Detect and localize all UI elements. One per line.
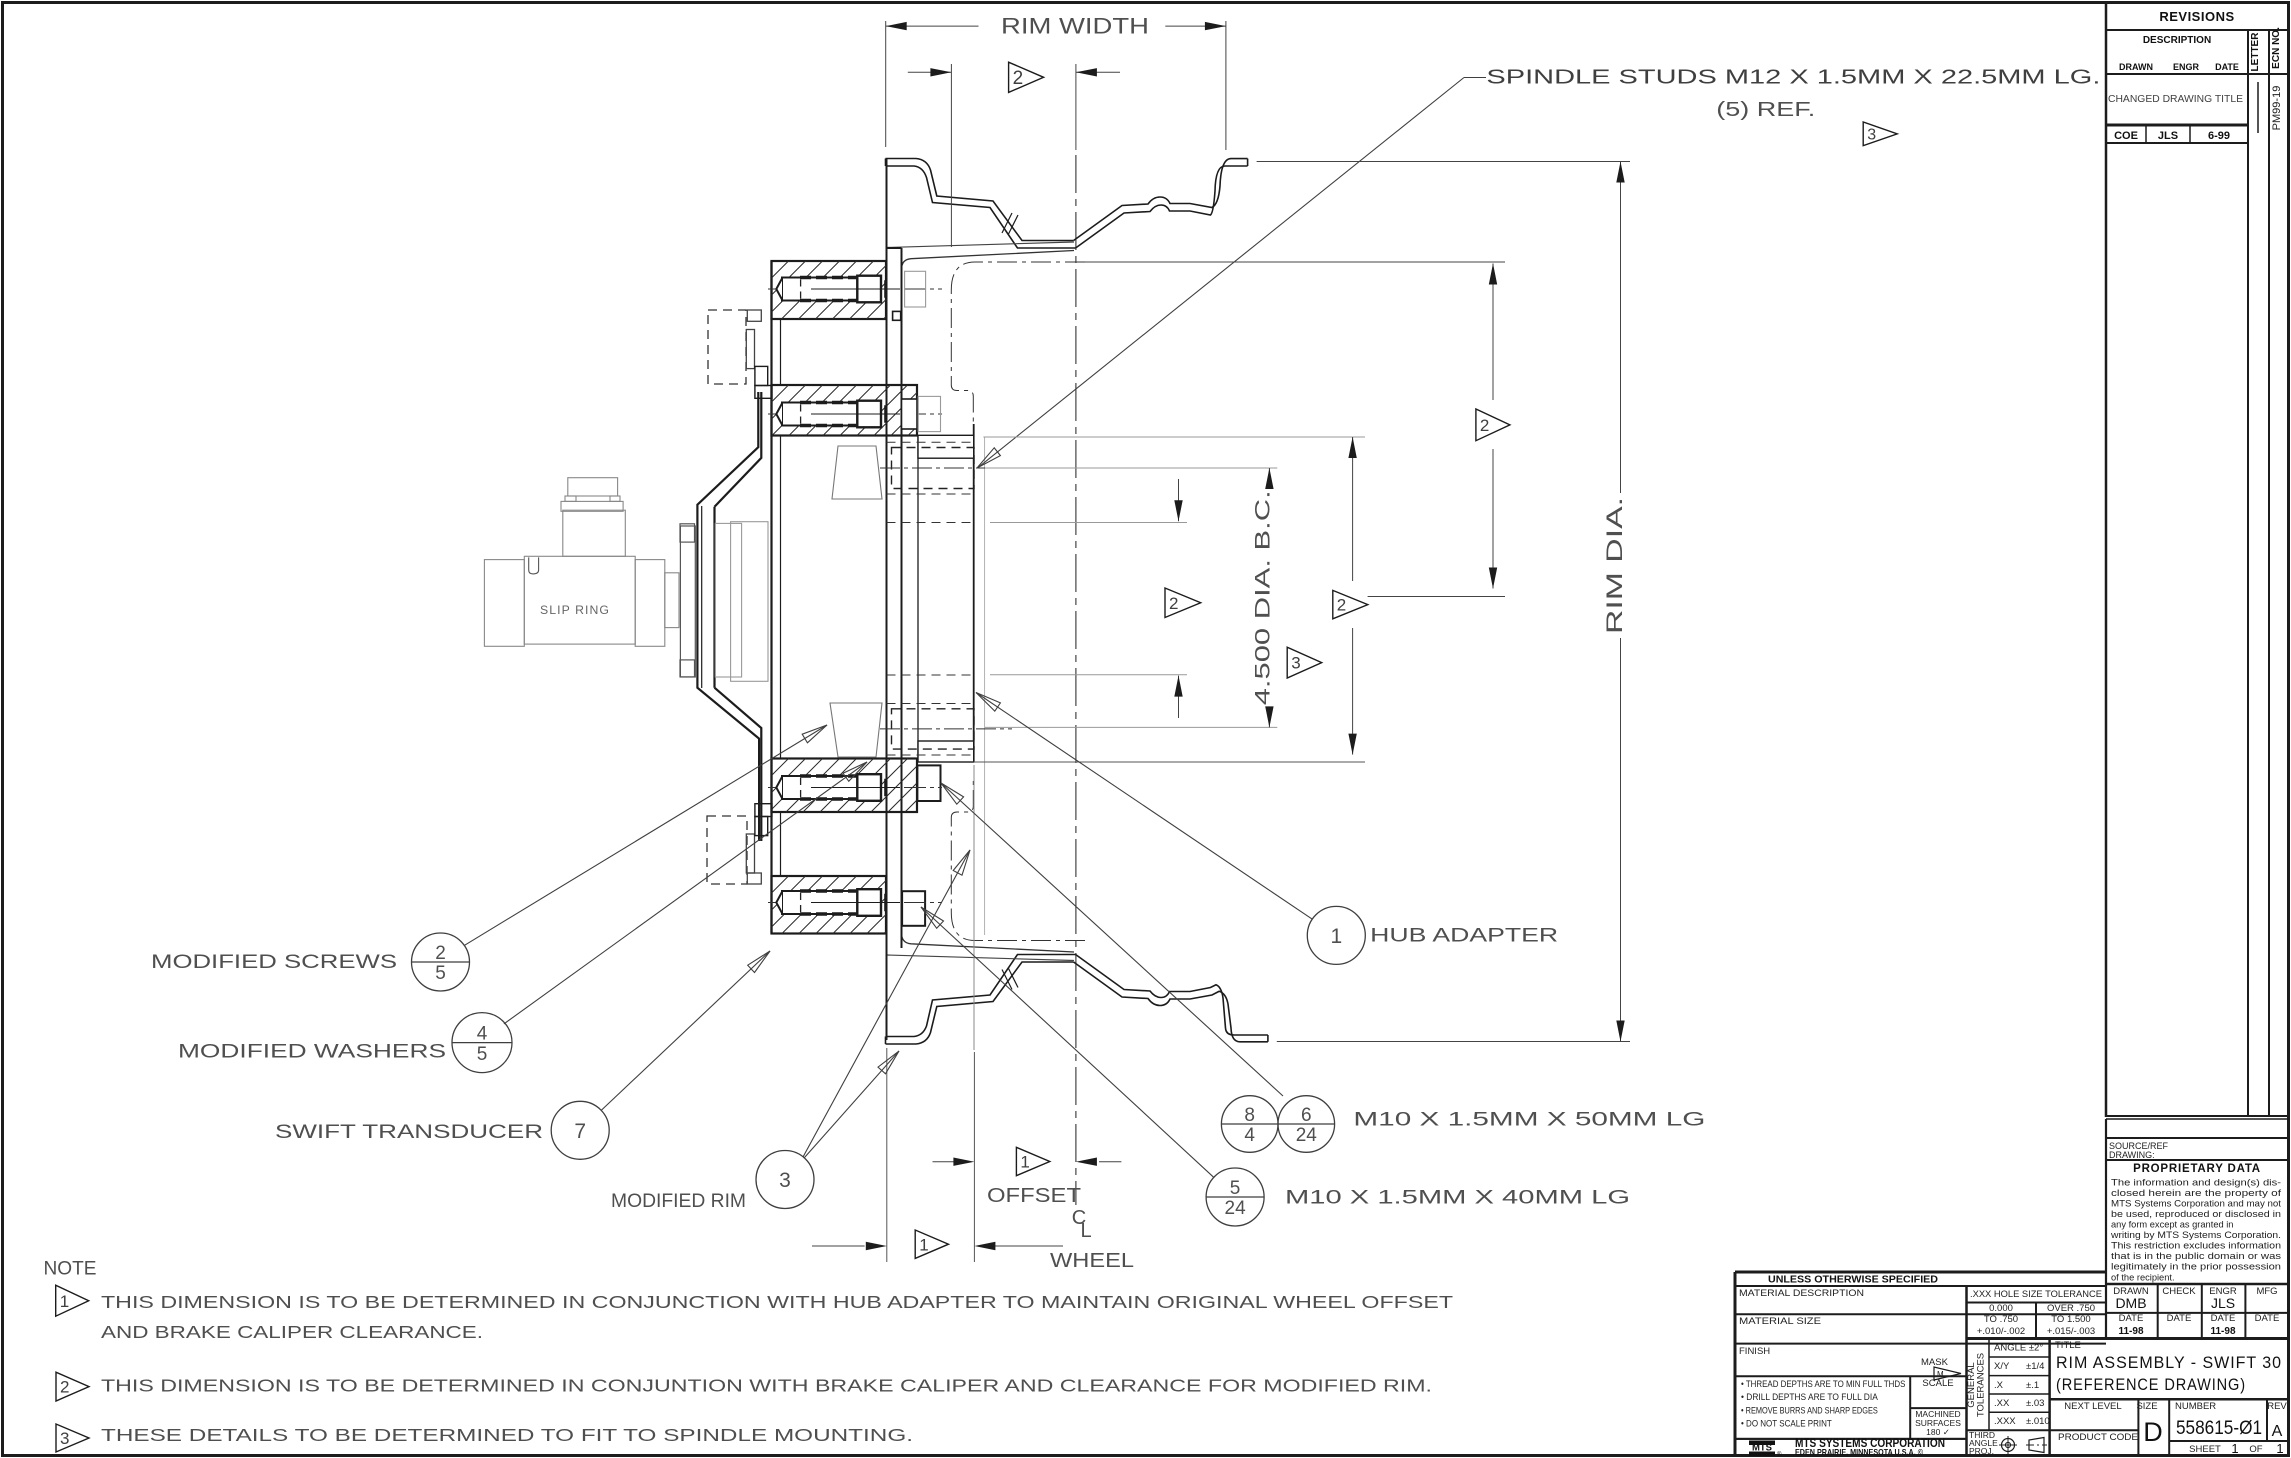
balloon 8/4 — [1221, 1096, 1278, 1153]
svg-text:THIS DIMENSION IS TO BE DETERM: THIS DIMENSION IS TO BE DETERMINED IN CO… — [101, 1376, 1432, 1396]
svg-text:2: 2 — [1337, 596, 1346, 615]
flag 1 (offset) — [1016, 1147, 1049, 1175]
svg-text:MODIFIED RIM: MODIFIED RIM — [611, 1191, 746, 1212]
wheel mounting face line — [973, 424, 975, 762]
svg-text:MTS Systems Corporation and ma: MTS Systems Corporation and may not — [2111, 1198, 2281, 1208]
svg-text:±.1: ±.1 — [2026, 1380, 2039, 1391]
hub ring inner faces dimension (x=1352.6) — [983, 436, 1365, 438]
svg-text:NOTE: NOTE — [44, 1259, 97, 1280]
wheel centerline CL — [1075, 64, 1077, 150]
svg-text:24: 24 — [1225, 1198, 1247, 1219]
svg-text:NUMBER: NUMBER — [2175, 1401, 2216, 1412]
flag 3 (spindle studs) — [1863, 122, 1897, 146]
svg-text:11-98: 11-98 — [2118, 1326, 2143, 1337]
rim disc clamp plate edge — [917, 436, 919, 759]
modified screw, second bolt — [768, 413, 942, 415]
svg-text:OVER .750: OVER .750 — [2047, 1303, 2095, 1314]
svg-text:WHEEL: WHEEL — [1050, 1250, 1134, 1272]
svg-text:DRAWN: DRAWN — [2119, 62, 2153, 72]
svg-text:MATERIAL SIZE: MATERIAL SIZE — [1739, 1316, 1821, 1327]
svg-text:4: 4 — [1244, 1125, 1255, 1146]
svg-text:2: 2 — [435, 943, 446, 964]
RIM WIDTH dimension — [885, 21, 887, 147]
balloon 5/24 — [1206, 1168, 1264, 1226]
hub face to wheel face dimension (bottom) — [886, 1048, 888, 1262]
svg-text:M10 X 1.5MM X 40MM LG: M10 X 1.5MM X 40MM LG — [1285, 1188, 1630, 1209]
stud hole dimension (small arrows x=1178.5) — [990, 522, 1187, 524]
svg-text:(REFERENCE DRAWING): (REFERENCE DRAWING) — [2056, 1376, 2246, 1394]
hatched block B3 (lower ring) — [772, 759, 918, 813]
svg-text:COE: COE — [2114, 130, 2138, 142]
spindle stud, lower (hidden) — [892, 709, 975, 749]
MTS logo — [1735, 1438, 1967, 1440]
bolt pocket in plate (second bolt) — [902, 399, 918, 429]
svg-text:closed herein are the property: closed herein are the property of — [2111, 1188, 2282, 1198]
lug nut (lower, behind section) — [830, 703, 882, 757]
svg-text:PROJ.: PROJ. — [1969, 1446, 1994, 1456]
svg-text:PRODUCT CODE: PRODUCT CODE — [2058, 1432, 2138, 1443]
leader: modified screws — [464, 725, 827, 946]
svg-text:MODIFIED WASHERS: MODIFIED WASHERS — [178, 1042, 446, 1063]
balloon 7 swift transducer — [551, 1101, 609, 1159]
svg-text:• REMOVE BURRS AND SHARP EDGES: • REMOVE BURRS AND SHARP EDGES — [1741, 1405, 1878, 1415]
svg-text:SWIFT TRANSDUCER: SWIFT TRANSDUCER — [275, 1122, 543, 1143]
svg-text:.X: .X — [1994, 1380, 2004, 1391]
lug nut (upper, behind section) — [832, 446, 882, 499]
flag 1 (bottom dim) — [915, 1230, 948, 1258]
revisions table — [2105, 2, 2108, 1117]
svg-text:TO .750: TO .750 — [1984, 1314, 2018, 1325]
svg-text:MATERIAL DESCRIPTION: MATERIAL DESCRIPTION — [1739, 1288, 1864, 1299]
leader: hub adapter — [976, 693, 1312, 920]
modified rim, bottom section (outer wall) — [886, 962, 1074, 1044]
hub cover bracket (bottom, hidden) — [707, 816, 747, 884]
svg-text:DATE: DATE — [2215, 62, 2239, 72]
svg-text:AND BRAKE CALIPER CLEARANCE.: AND BRAKE CALIPER CLEARANCE. — [101, 1322, 483, 1342]
OFFSET dimension — [933, 1161, 954, 1163]
svg-text:TOLERANCES: TOLERANCES — [1976, 1353, 1987, 1417]
RIM DIA dimension — [1257, 161, 1630, 163]
svg-text:DATE: DATE — [2255, 1313, 2280, 1324]
svg-text:MASK: MASK — [1921, 1357, 1949, 1368]
hub adapter ring section, hatched block B1 — [772, 261, 887, 319]
source/ref drawing box — [2106, 1137, 2289, 1139]
svg-text:2: 2 — [1013, 68, 1024, 89]
rim section weld ticks (top) — [1002, 213, 1012, 233]
svg-text:RIM WIDTH: RIM WIDTH — [1001, 14, 1149, 39]
svg-text:HUB ADAPTER: HUB ADAPTER — [1370, 926, 1558, 947]
svg-text:ENGR: ENGR — [2173, 62, 2200, 72]
svg-text:PROPRIETARY DATA: PROPRIETARY DATA — [2133, 1163, 2261, 1175]
svg-text:11-98: 11-98 — [2210, 1326, 2235, 1337]
leader: modified rim — [804, 1051, 899, 1158]
svg-text:SIZE: SIZE — [2136, 1401, 2157, 1412]
svg-text:5: 5 — [477, 1044, 488, 1065]
svg-text:8: 8 — [1244, 1105, 1255, 1126]
svg-text:UNLESS OTHERWISE SPECIFIED: UNLESS OTHERWISE SPECIFIED — [1768, 1275, 1938, 1286]
svg-text:3: 3 — [1867, 127, 1876, 144]
svg-text:OF: OF — [2249, 1444, 2262, 1455]
swift transducer horn outline — [697, 392, 759, 841]
leader: M10 x 50 screws — [941, 783, 1283, 1096]
svg-text:JLS: JLS — [2158, 130, 2178, 142]
svg-text:SLIP RING: SLIP RING — [540, 605, 610, 617]
rim section weld ticks (bottom) — [1002, 970, 1012, 990]
hub adapter/rim junction hatched block B2 — [772, 385, 918, 436]
hub flange dimension (x=1493) — [1085, 261, 1505, 263]
svg-text:2: 2 — [1480, 416, 1489, 435]
third-angle projection symbol — [2002, 1439, 2015, 1452]
svg-text:DRAWING:: DRAWING: — [2109, 1150, 2155, 1160]
projection cone symbol — [2029, 1438, 2044, 1453]
flag 2 (mid dim) — [1333, 590, 1368, 618]
balloon 4/5 modified washers — [452, 1013, 512, 1073]
leader: M10 x 40 screws — [921, 907, 1214, 1177]
rim disc mid-plane centerline (dash-dot) — [951, 262, 1085, 424]
hidden hub pilot edge (faint) — [984, 437, 986, 935]
svg-text:X/Y: X/Y — [1994, 1361, 2010, 1372]
flag 2 (stud dim) — [1165, 588, 1201, 618]
rim disc lower face lines — [887, 955, 1074, 961]
svg-text:MFG: MFG — [2256, 1286, 2277, 1297]
hub cover bracket (top, hidden) — [708, 310, 746, 384]
svg-text:±.010: ±.010 — [2026, 1416, 2050, 1427]
spindle studs leader — [1464, 77, 1486, 79]
4.500 DIA. B.C. dimension — [985, 467, 1277, 469]
modified washer block (bottom bolt) — [902, 891, 925, 926]
svg-text:DATE: DATE — [2211, 1313, 2236, 1324]
svg-text:that is in the public domain o: that is in the public domain or was — [2111, 1251, 2281, 1261]
svg-text:1: 1 — [919, 1235, 928, 1254]
svg-text:1: 1 — [2276, 1441, 2283, 1456]
svg-text:SCALE: SCALE — [1922, 1378, 1953, 1389]
modified screw, bottom bolt — [768, 902, 942, 904]
svg-text:2: 2 — [1169, 594, 1178, 613]
spindle stud, upper (hidden) — [892, 448, 975, 489]
note flag 2 — [56, 1372, 89, 1401]
svg-text:LETTER: LETTER — [2250, 32, 2261, 72]
note flag 3 — [56, 1424, 89, 1452]
hub adapter mounting pad (bottom) — [918, 741, 974, 762]
svg-text:ECN NO.: ECN NO. — [2271, 27, 2282, 69]
svg-text:writing by MTS Systems Corpora: writing by MTS Systems Corporation. — [2110, 1230, 2281, 1240]
svg-text:3: 3 — [779, 1169, 791, 1192]
svg-text:• DRILL DEPTHS ARE TO FULL DIA: • DRILL DEPTHS ARE TO FULL DIA — [1741, 1392, 1879, 1402]
svg-text:The information and design(s): The information and design(s) dis- — [2111, 1177, 2281, 1187]
svg-text:5: 5 — [1230, 1178, 1241, 1199]
hatched block B4 (bottom ring) — [772, 876, 887, 934]
svg-text:SPINDLE STUDS M12 X 1.5MM X 22: SPINDLE STUDS M12 X 1.5MM X 22.5MM LG. — [1486, 67, 2100, 89]
modified rim, bottom section (inner wall) — [886, 955, 1076, 1037]
svg-text:.XXX: .XXX — [1994, 1416, 2016, 1427]
balloon 2/5 modified screws — [412, 933, 470, 991]
svg-text:558615-Ø1: 558615-Ø1 — [2176, 1418, 2262, 1439]
modified rim, top section (outer wall) — [886, 159, 1074, 241]
svg-text:REV: REV — [2267, 1401, 2287, 1412]
svg-text:RIM ASSEMBLY - SWIFT 30: RIM ASSEMBLY - SWIFT 30 — [2056, 1354, 2282, 1372]
svg-text:D: D — [2143, 1417, 2163, 1447]
slip ring assembly — [665, 573, 679, 628]
svg-text:ANGLE ±2°: ANGLE ±2° — [1994, 1343, 2043, 1354]
mask triangle symbol — [1934, 1367, 1961, 1380]
svg-text:1: 1 — [60, 1292, 69, 1311]
svg-text:®: ® — [1777, 1451, 1782, 1458]
svg-text:±.03: ±.03 — [2026, 1398, 2044, 1409]
transducer mounting plate to slip ring — [680, 526, 695, 677]
svg-text:DMB: DMB — [2115, 1295, 2146, 1311]
flag 2 (right dim) — [1476, 409, 1510, 441]
slip ring wire clip — [529, 557, 539, 574]
svg-text:4: 4 — [477, 1024, 488, 1045]
svg-text:(5) REF.: (5) REF. — [1716, 99, 1815, 121]
svg-text:1: 1 — [2231, 1441, 2238, 1456]
svg-text:1: 1 — [1330, 925, 1342, 948]
svg-text:NEXT LEVEL: NEXT LEVEL — [2064, 1401, 2121, 1412]
svg-text:4.500 DIA. B.C.: 4.500 DIA. B.C. — [1251, 490, 1274, 705]
svg-text:3: 3 — [1291, 654, 1300, 673]
svg-text:DATE: DATE — [2119, 1313, 2144, 1324]
svg-text:6: 6 — [1301, 1105, 1312, 1126]
svg-text:of the recipient.: of the recipient. — [2111, 1272, 2175, 1282]
modified washer block (mid bolt) — [917, 765, 940, 801]
svg-text:DATE: DATE — [2167, 1313, 2192, 1324]
modified rim, top section (inner wall) — [886, 166, 1076, 248]
svg-text:1: 1 — [1020, 1153, 1029, 1172]
svg-text:REVISIONS: REVISIONS — [2159, 9, 2234, 24]
svg-text:M10 X 1.5MM X 50MM LG: M10 X 1.5MM X 50MM LG — [1353, 1110, 1705, 1131]
svg-text:6-99: 6-99 — [2208, 130, 2230, 142]
transducer sensing element — [715, 523, 741, 677]
svg-text:7: 7 — [574, 1120, 586, 1143]
svg-text:• DO NOT SCALE PRINT: • DO NOT SCALE PRINT — [1741, 1419, 1832, 1429]
plate tab (top right, behind) — [905, 271, 926, 307]
svg-text:L: L — [1080, 1220, 1091, 1242]
svg-text:legitimately in the prior poss: legitimately in the prior possession — [2111, 1262, 2281, 1272]
svg-text:PM99-19: PM99-19 — [2271, 86, 2283, 131]
svg-text:5: 5 — [435, 963, 446, 984]
svg-text:any form except as granted in: any form except as granted in — [2111, 1220, 2233, 1230]
svg-text:THESE DETAILS TO BE DETERMINED: THESE DETAILS TO BE DETERMINED TO FIT TO… — [101, 1425, 913, 1445]
rim disc upper face lines — [887, 242, 1074, 248]
svg-text:THIS DIMENSION IS TO BE DETERM: THIS DIMENSION IS TO BE DETERMINED IN CO… — [101, 1292, 1453, 1312]
rim offset dimension (2-flag, top) — [950, 64, 952, 247]
svg-text:CHANGED DRAWING TITLE: CHANGED DRAWING TITLE — [2108, 93, 2243, 105]
hub adapter left face — [770, 261, 772, 934]
flag 3 (BC dim) — [1287, 647, 1322, 678]
svg-text:DESCRIPTION: DESCRIPTION — [2143, 35, 2211, 46]
svg-text:EDEN PRAIRIE, MINNESOTA U.S.A.: EDEN PRAIRIE, MINNESOTA U.S.A. © — [1795, 1447, 1924, 1457]
plate tab (B2 level, behind) — [918, 396, 940, 431]
modified screw, top bolt — [768, 288, 942, 290]
svg-text:This restriction excludes info: This restriction excludes information — [2111, 1241, 2281, 1251]
svg-text:24: 24 — [1296, 1125, 1318, 1146]
svg-text:SHEET: SHEET — [2189, 1444, 2221, 1455]
modified screw, third bolt — [768, 787, 942, 789]
svg-text:.XXX HOLE SIZE TOLERANCE: .XXX HOLE SIZE TOLERANCE — [1970, 1289, 2102, 1300]
svg-text:JLS: JLS — [2211, 1295, 2235, 1311]
svg-text:RIM DIA.: RIM DIA. — [1602, 497, 1627, 634]
svg-text:2: 2 — [60, 1378, 69, 1397]
svg-text:be used, reproduced or disclos: be used, reproduced or disclosed in — [2111, 1209, 2281, 1219]
svg-text:MTS: MTS — [1752, 1443, 1772, 1454]
svg-text:180 ✓: 180 ✓ — [1926, 1427, 1950, 1437]
svg-text:.XX: .XX — [1994, 1398, 2010, 1409]
hub adapter plate faces — [886, 159, 888, 1041]
svg-text:TITLE: TITLE — [2055, 1340, 2081, 1351]
balloon 3 modified rim — [756, 1151, 814, 1209]
svg-text:+.015/-.003: +.015/-.003 — [2047, 1326, 2095, 1337]
svg-text:+.010/-.002: +.010/-.002 — [1977, 1326, 2025, 1337]
svg-text:FINISH: FINISH — [1739, 1346, 1770, 1357]
balloon 1 hub adapter — [1307, 906, 1365, 964]
stud pocket hidden lines — [887, 441, 976, 443]
svg-text:0.000: 0.000 — [1989, 1303, 2013, 1314]
flag 2 (top dim) — [1009, 62, 1044, 92]
svg-text:A: A — [2272, 1423, 2283, 1440]
svg-text:±1/4: ±1/4 — [2026, 1361, 2044, 1372]
svg-text:3: 3 — [60, 1429, 69, 1448]
svg-text:MODIFIED SCREWS: MODIFIED SCREWS — [151, 952, 397, 973]
slip ring connector neck — [563, 510, 626, 556]
svg-text:• THREAD DEPTHS ARE TO MIN FUL: • THREAD DEPTHS ARE TO MIN FULL THDS — [1741, 1379, 1905, 1389]
leader: modified washers — [504, 762, 867, 1024]
leader: swift transducer — [601, 951, 770, 1110]
title block grid — [1735, 1271, 2106, 1274]
plate step detail (top bolt) — [893, 311, 901, 320]
svg-text:OFFSET: OFFSET — [987, 1185, 1081, 1207]
hub adapter mounting pad (top) — [918, 435, 974, 458]
balloon 6/24 — [1278, 1096, 1335, 1153]
note flag 1 — [56, 1285, 89, 1316]
svg-text:TO 1.500: TO 1.500 — [2051, 1314, 2090, 1325]
svg-text:CHECK: CHECK — [2162, 1286, 2196, 1297]
